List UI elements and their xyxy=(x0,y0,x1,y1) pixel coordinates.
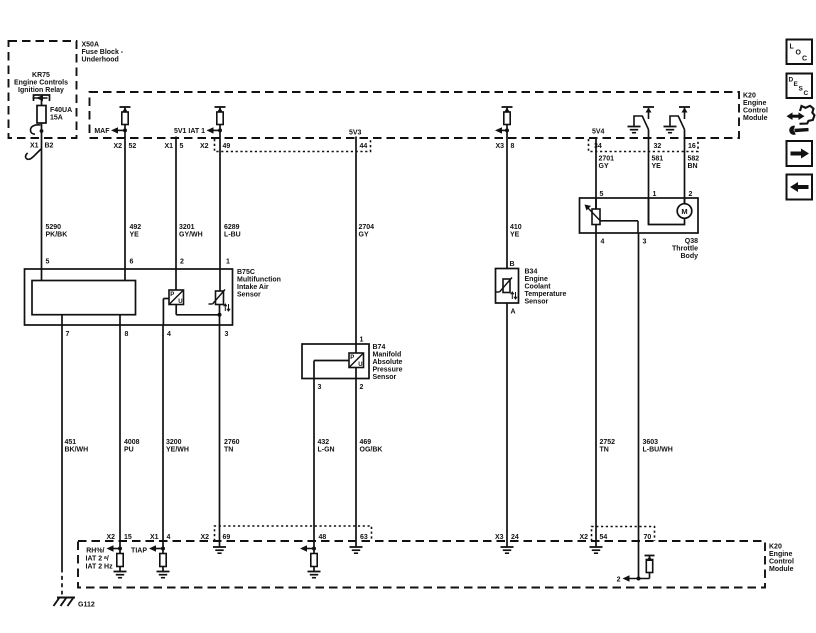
ECM node 2 with pull-up at pin 70 xyxy=(617,556,655,584)
wire 2760 TN to ECM pin 69 xyxy=(219,325,221,541)
svg-text:8: 8 xyxy=(125,331,129,338)
svg-text:Q38: Q38 xyxy=(685,238,698,245)
wire label 3201 GY/WH xyxy=(179,224,203,239)
signal arrow MAF xyxy=(94,127,127,135)
svg-text:Module: Module xyxy=(743,115,768,122)
label Q38 Throttle Body xyxy=(672,238,698,260)
svg-text:5: 5 xyxy=(46,259,50,266)
B74 internal wires xyxy=(314,361,356,379)
Q38 motor M xyxy=(649,198,692,225)
svg-text:RH%/: RH%/ xyxy=(86,548,104,555)
wire label 3603 L-BU/WH xyxy=(643,439,673,454)
sidebar icon LOC xyxy=(787,40,813,65)
pin 32 xyxy=(654,143,662,150)
svg-text:X2: X2 xyxy=(579,534,588,541)
svg-text:432: 432 xyxy=(318,439,330,446)
svg-text:Ignition Relay: Ignition Relay xyxy=(18,87,64,94)
svg-text:KR75: KR75 xyxy=(32,72,50,79)
signal arrow 5V1 IAT 1 xyxy=(174,127,222,135)
label B34 Engine Coolant Temperature Sensor xyxy=(525,269,567,306)
svg-text:U: U xyxy=(178,299,182,305)
connector group box pins 49-44 (dotted) xyxy=(215,139,371,152)
inline connector hook (upper) xyxy=(31,125,44,134)
connector pins X1 5 xyxy=(164,143,183,150)
svg-text:GY: GY xyxy=(359,232,369,239)
pin 16 xyxy=(688,143,696,150)
svg-text:Manifold: Manifold xyxy=(373,352,402,359)
svg-text:MAF: MAF xyxy=(94,128,110,135)
svg-text:L-BU: L-BU xyxy=(224,232,241,239)
svg-text:5: 5 xyxy=(180,143,184,150)
svg-text:YE: YE xyxy=(510,232,520,239)
wire ECM pin 52 to B75C pin 6 xyxy=(124,130,126,281)
svg-text:YE: YE xyxy=(130,232,140,239)
svg-text:BN: BN xyxy=(688,163,698,170)
connector group box pins 69-63 (dotted) xyxy=(215,526,372,541)
svg-text:4: 4 xyxy=(167,331,171,338)
svg-text:Fuse Block -: Fuse Block - xyxy=(82,49,124,56)
svg-text:70: 70 xyxy=(644,534,652,541)
svg-text:4008: 4008 xyxy=(124,439,140,446)
svg-text:5V4: 5V4 xyxy=(592,129,605,136)
label F40UA 15A xyxy=(50,107,72,122)
B74 pressure transducer P/U xyxy=(349,353,364,368)
relay KR75 contact symbol xyxy=(33,95,50,106)
wire label 410 YE xyxy=(510,224,522,239)
svg-text:2760: 2760 xyxy=(224,439,240,446)
wire label 6289 L-BU xyxy=(224,224,241,239)
sensor B34 outer box xyxy=(496,269,519,304)
B75C internal wires xyxy=(163,299,221,326)
wire ECM pin 16 to throttle pin 2 (motor) xyxy=(684,130,686,204)
svg-text:C: C xyxy=(804,90,809,97)
svg-text:Sensor: Sensor xyxy=(525,299,549,306)
B75C pins bottom wires xyxy=(62,315,120,325)
label X50A Fuse Block - Underhood xyxy=(82,42,124,64)
svg-text:6: 6 xyxy=(130,259,134,266)
node 5V3 xyxy=(349,130,362,137)
svg-text:O: O xyxy=(796,50,802,57)
wire ECM pin 49 to B75C pin 1 xyxy=(219,130,221,291)
MAF sensor feed symbol in ECM xyxy=(120,107,131,130)
svg-text:2: 2 xyxy=(617,577,621,584)
svg-text:X2: X2 xyxy=(106,534,115,541)
sensor B74 outer box xyxy=(302,344,369,379)
svg-text:48: 48 xyxy=(319,534,327,541)
svg-text:GY/WH: GY/WH xyxy=(179,232,203,239)
wire ECM pin 32 to throttle pin 1 xyxy=(648,130,650,225)
wire ECM pin 44 to B74 pin 1 xyxy=(355,137,357,354)
svg-text:3603: 3603 xyxy=(643,439,659,446)
svg-text:Underhood: Underhood xyxy=(82,57,119,64)
svg-text:5V1 IAT 1: 5V1 IAT 1 xyxy=(174,128,205,135)
throttle body Q38 outer box xyxy=(580,198,699,233)
svg-text:2701: 2701 xyxy=(599,156,615,163)
wire label 5290 PK/BK xyxy=(46,224,68,239)
wire label 432 L-GN xyxy=(318,439,335,454)
svg-text:A: A xyxy=(511,309,516,316)
ECM pin X2 54 (ground) xyxy=(579,534,607,553)
svg-text:1: 1 xyxy=(226,259,230,266)
svg-text:X1: X1 xyxy=(30,143,39,150)
svg-text:49: 49 xyxy=(223,143,231,150)
wire label 2701 GY xyxy=(599,156,615,171)
B75C inner element (hot film) xyxy=(32,281,136,315)
svg-text:Pressure: Pressure xyxy=(373,367,403,374)
svg-text:Throttle: Throttle xyxy=(672,246,698,253)
wire label 581 YE xyxy=(652,156,664,171)
connector pins X3 8 xyxy=(495,143,514,150)
svg-text:1: 1 xyxy=(360,337,364,344)
svg-text:581: 581 xyxy=(652,156,664,163)
svg-text:Sensor: Sensor xyxy=(237,292,261,299)
wire label 492 YE xyxy=(130,224,142,239)
svg-text:X2: X2 xyxy=(200,534,209,541)
ECM pin X3 24 (ground) xyxy=(495,534,519,553)
svg-text:TN: TN xyxy=(224,447,233,454)
sidebar icon diagnostic (arrow + wrench) xyxy=(787,106,815,135)
B34 pin letters xyxy=(510,261,516,316)
ECM pin 48 (MAP signal) xyxy=(300,534,326,578)
wire label 3200 YE/WH xyxy=(166,439,189,454)
label IAT 2 a / IAT 2 Hz xyxy=(86,555,114,571)
ECM driver (low side) at pin 32 xyxy=(628,107,655,133)
svg-text:X2: X2 xyxy=(200,143,209,150)
svg-text:YE: YE xyxy=(652,163,662,170)
svg-text:24: 24 xyxy=(511,534,519,541)
svg-text:44: 44 xyxy=(360,143,368,150)
svg-text:1: 1 xyxy=(653,191,657,198)
svg-text:B: B xyxy=(510,261,515,268)
svg-text:8: 8 xyxy=(511,143,515,150)
svg-text:3: 3 xyxy=(318,384,322,391)
ECM pin X2 15 (RH%/IAT signals) xyxy=(86,534,132,555)
svg-text:L-GN: L-GN xyxy=(318,447,335,454)
Q38 pin numbers top xyxy=(600,191,693,198)
wire 451 BK/WH to G112 xyxy=(61,325,63,569)
signal arrow at pin 8 xyxy=(495,127,509,133)
Q38 pin numbers bottom xyxy=(601,239,647,246)
wire ECM pin 5 to B75C pin 2 xyxy=(175,137,177,290)
wire label 469 OG/BK xyxy=(360,439,383,454)
svg-text:410: 410 xyxy=(510,224,522,231)
svg-text:2752: 2752 xyxy=(600,439,616,446)
svg-text:B34: B34 xyxy=(525,269,538,276)
svg-text:Engine Controls: Engine Controls xyxy=(14,80,68,87)
wire label 4008 PU xyxy=(124,439,140,454)
ECM K20 bottom (dashed box) xyxy=(78,541,765,588)
svg-text:F40UA: F40UA xyxy=(50,107,72,114)
svg-text:P: P xyxy=(170,292,174,298)
fuse block X50A - Underhood (dashed box) xyxy=(9,41,77,138)
svg-text:492: 492 xyxy=(130,224,142,231)
svg-text:X50A: X50A xyxy=(82,42,100,49)
svg-text:32: 32 xyxy=(654,143,662,150)
svg-text:69: 69 xyxy=(223,534,231,541)
wire 451 BK/WH dashed segment xyxy=(61,569,63,595)
svg-text:GY: GY xyxy=(599,163,609,170)
svg-text:L: L xyxy=(790,44,795,51)
5V1 IAT 1 feed symbol in ECM xyxy=(215,107,226,130)
svg-text:Engine: Engine xyxy=(743,100,766,107)
svg-text:451: 451 xyxy=(65,439,77,446)
B74 pin numbers xyxy=(318,337,364,392)
svg-text:5V3: 5V3 xyxy=(349,130,362,137)
wire B34 pin A to ECM pin 24 xyxy=(506,303,508,541)
svg-text:6289: 6289 xyxy=(224,224,240,231)
wire 2752 TN to ECM pin 54 xyxy=(595,233,597,541)
svg-text:OG/BK: OG/BK xyxy=(360,447,383,454)
ECM driver (low side) at pin 16 xyxy=(664,107,691,133)
svg-text:3: 3 xyxy=(225,331,229,338)
B75C pressure transducer P/U xyxy=(169,290,184,305)
pin 34 xyxy=(594,143,602,150)
svg-text:YE/WH: YE/WH xyxy=(166,447,189,454)
svg-text:Absolute: Absolute xyxy=(373,359,403,366)
svg-text:Control: Control xyxy=(743,108,768,115)
svg-text:K20: K20 xyxy=(743,93,756,100)
svg-text:BK/WH: BK/WH xyxy=(65,447,89,454)
svg-text:X3: X3 xyxy=(495,143,504,150)
svg-text:G112: G112 xyxy=(78,602,95,609)
connector pins X1 B2 xyxy=(30,143,54,150)
svg-text:15: 15 xyxy=(124,534,132,541)
wire label 2704 GY xyxy=(359,224,375,239)
B75C pin numbers top xyxy=(46,259,231,266)
svg-text:Module: Module xyxy=(769,566,794,573)
label K20 Engine Control Module (bottom right) xyxy=(769,544,794,574)
svg-text:TN: TN xyxy=(600,447,609,454)
wire relay output to B75C pin 5 xyxy=(41,123,43,281)
wire label 582 BN xyxy=(688,156,700,171)
svg-text:4: 4 xyxy=(167,534,171,541)
svg-text:5290: 5290 xyxy=(46,224,62,231)
connector pins X2 52 xyxy=(113,143,136,150)
svg-text:3: 3 xyxy=(643,239,647,246)
svg-text:Body: Body xyxy=(681,253,699,260)
sensor B75C outer box xyxy=(25,269,233,325)
ground G112 symbol xyxy=(54,598,76,607)
svg-text:Intake Air: Intake Air xyxy=(237,284,269,291)
svg-text:L-BU/WH: L-BU/WH xyxy=(643,447,673,454)
svg-text:K20: K20 xyxy=(769,544,782,551)
svg-text:2704: 2704 xyxy=(359,224,375,231)
svg-text:469: 469 xyxy=(360,439,372,446)
sidebar icon back arrow xyxy=(787,175,813,200)
wire label 2752 TN xyxy=(600,439,616,454)
ECM K20 top (dashed box) xyxy=(90,92,740,138)
Q38 TPS potentiometer xyxy=(585,198,639,233)
svg-text:Sensor: Sensor xyxy=(373,374,397,381)
wire 4008 PU to ECM pin 15 xyxy=(119,325,121,549)
svg-text:5: 5 xyxy=(600,191,604,198)
svg-text:582: 582 xyxy=(688,156,700,163)
ECM pin 63 (ground) xyxy=(350,534,368,553)
svg-text:15A: 15A xyxy=(50,115,63,122)
ECM pin X2 69 (ground) xyxy=(200,534,230,553)
svg-text:X1: X1 xyxy=(164,143,173,150)
connector group box pins 34-16 (dotted) xyxy=(589,139,699,152)
label B75C Multifunction Intake Air Sensor xyxy=(237,269,281,299)
svg-text:Engine: Engine xyxy=(525,276,548,283)
connector group box pins 54-70 (dotted) xyxy=(592,527,655,542)
svg-text:Multifunction: Multifunction xyxy=(237,277,281,284)
inline connector hook (lower) xyxy=(26,149,41,159)
svg-text:PK/BK: PK/BK xyxy=(46,232,68,239)
wire label 2760 TN xyxy=(224,439,240,454)
svg-text:B75C: B75C xyxy=(237,269,255,276)
svg-text:3201: 3201 xyxy=(179,224,195,231)
svg-text:7: 7 xyxy=(66,331,70,338)
sidebar icon forward arrow xyxy=(787,141,813,166)
wire 432 L-GN to ECM pin 48 xyxy=(313,379,315,549)
label KR75 Engine Controls Ignition Relay xyxy=(14,72,68,94)
ECM pin X1 4 (TIAP signal) xyxy=(131,534,170,555)
ECM pin 70 (motor control) xyxy=(644,534,652,541)
svg-text:63: 63 xyxy=(360,534,368,541)
svg-text:2: 2 xyxy=(360,384,364,391)
B34 thermistor xyxy=(496,278,518,300)
svg-text:C: C xyxy=(802,56,807,63)
svg-text:52: 52 xyxy=(129,143,137,150)
svg-text:X3: X3 xyxy=(495,534,504,541)
ECM pull-down resistor at pin 15 xyxy=(114,549,127,578)
ECM pull-down resistor at pin 4 xyxy=(157,549,170,578)
svg-text:B74: B74 xyxy=(373,344,386,351)
svg-text:PU: PU xyxy=(124,447,134,454)
svg-text:P: P xyxy=(350,355,354,361)
svg-text:B2: B2 xyxy=(45,143,54,150)
wire label 451 BK/WH xyxy=(65,439,89,454)
ECT feed symbol in ECM xyxy=(502,107,513,130)
label K20 Engine Control Module (top right) xyxy=(743,93,768,123)
svg-text:2: 2 xyxy=(180,259,184,266)
wire 469 OG/BK to ECM pin 63 xyxy=(355,379,357,542)
svg-text:34: 34 xyxy=(594,143,602,150)
wire 3200 YE/WH to ECM pin 4 xyxy=(162,325,164,549)
pin 44 xyxy=(360,143,368,150)
svg-text:X1: X1 xyxy=(150,534,159,541)
svg-text:54: 54 xyxy=(600,534,608,541)
fuse F40UA 15A xyxy=(37,106,46,124)
wire ECM pin 8 to B34 pin B xyxy=(506,130,508,268)
sidebar icon DESC xyxy=(787,74,813,99)
svg-text:Temperature: Temperature xyxy=(525,291,567,298)
svg-text:M: M xyxy=(681,207,687,216)
svg-text:TIAP: TIAP xyxy=(131,548,147,555)
node 5V4 xyxy=(592,129,605,136)
connector pins X2 49 xyxy=(200,143,230,150)
label B74 Manifold Absolute Pressure Sensor xyxy=(373,344,403,381)
svg-text:IAT 2 Hz: IAT 2 Hz xyxy=(86,564,114,571)
B75C thermistor IAT xyxy=(209,290,231,312)
svg-text:Engine: Engine xyxy=(769,551,792,558)
svg-text:4: 4 xyxy=(601,239,605,246)
label G112 xyxy=(78,602,95,609)
svg-text:3200: 3200 xyxy=(166,439,182,446)
wire ECM pin 34 to throttle pin 5 xyxy=(595,138,597,209)
wire 3603 L-BU/WH to ECM pin 70 xyxy=(638,233,640,579)
svg-text:16: 16 xyxy=(688,143,696,150)
svg-text:U: U xyxy=(358,362,362,368)
svg-text:X2: X2 xyxy=(113,143,122,150)
svg-text:2: 2 xyxy=(689,191,693,198)
svg-text:Coolant: Coolant xyxy=(525,284,552,291)
B75C pin numbers bottom xyxy=(66,331,229,338)
svg-text:Control: Control xyxy=(769,559,794,566)
